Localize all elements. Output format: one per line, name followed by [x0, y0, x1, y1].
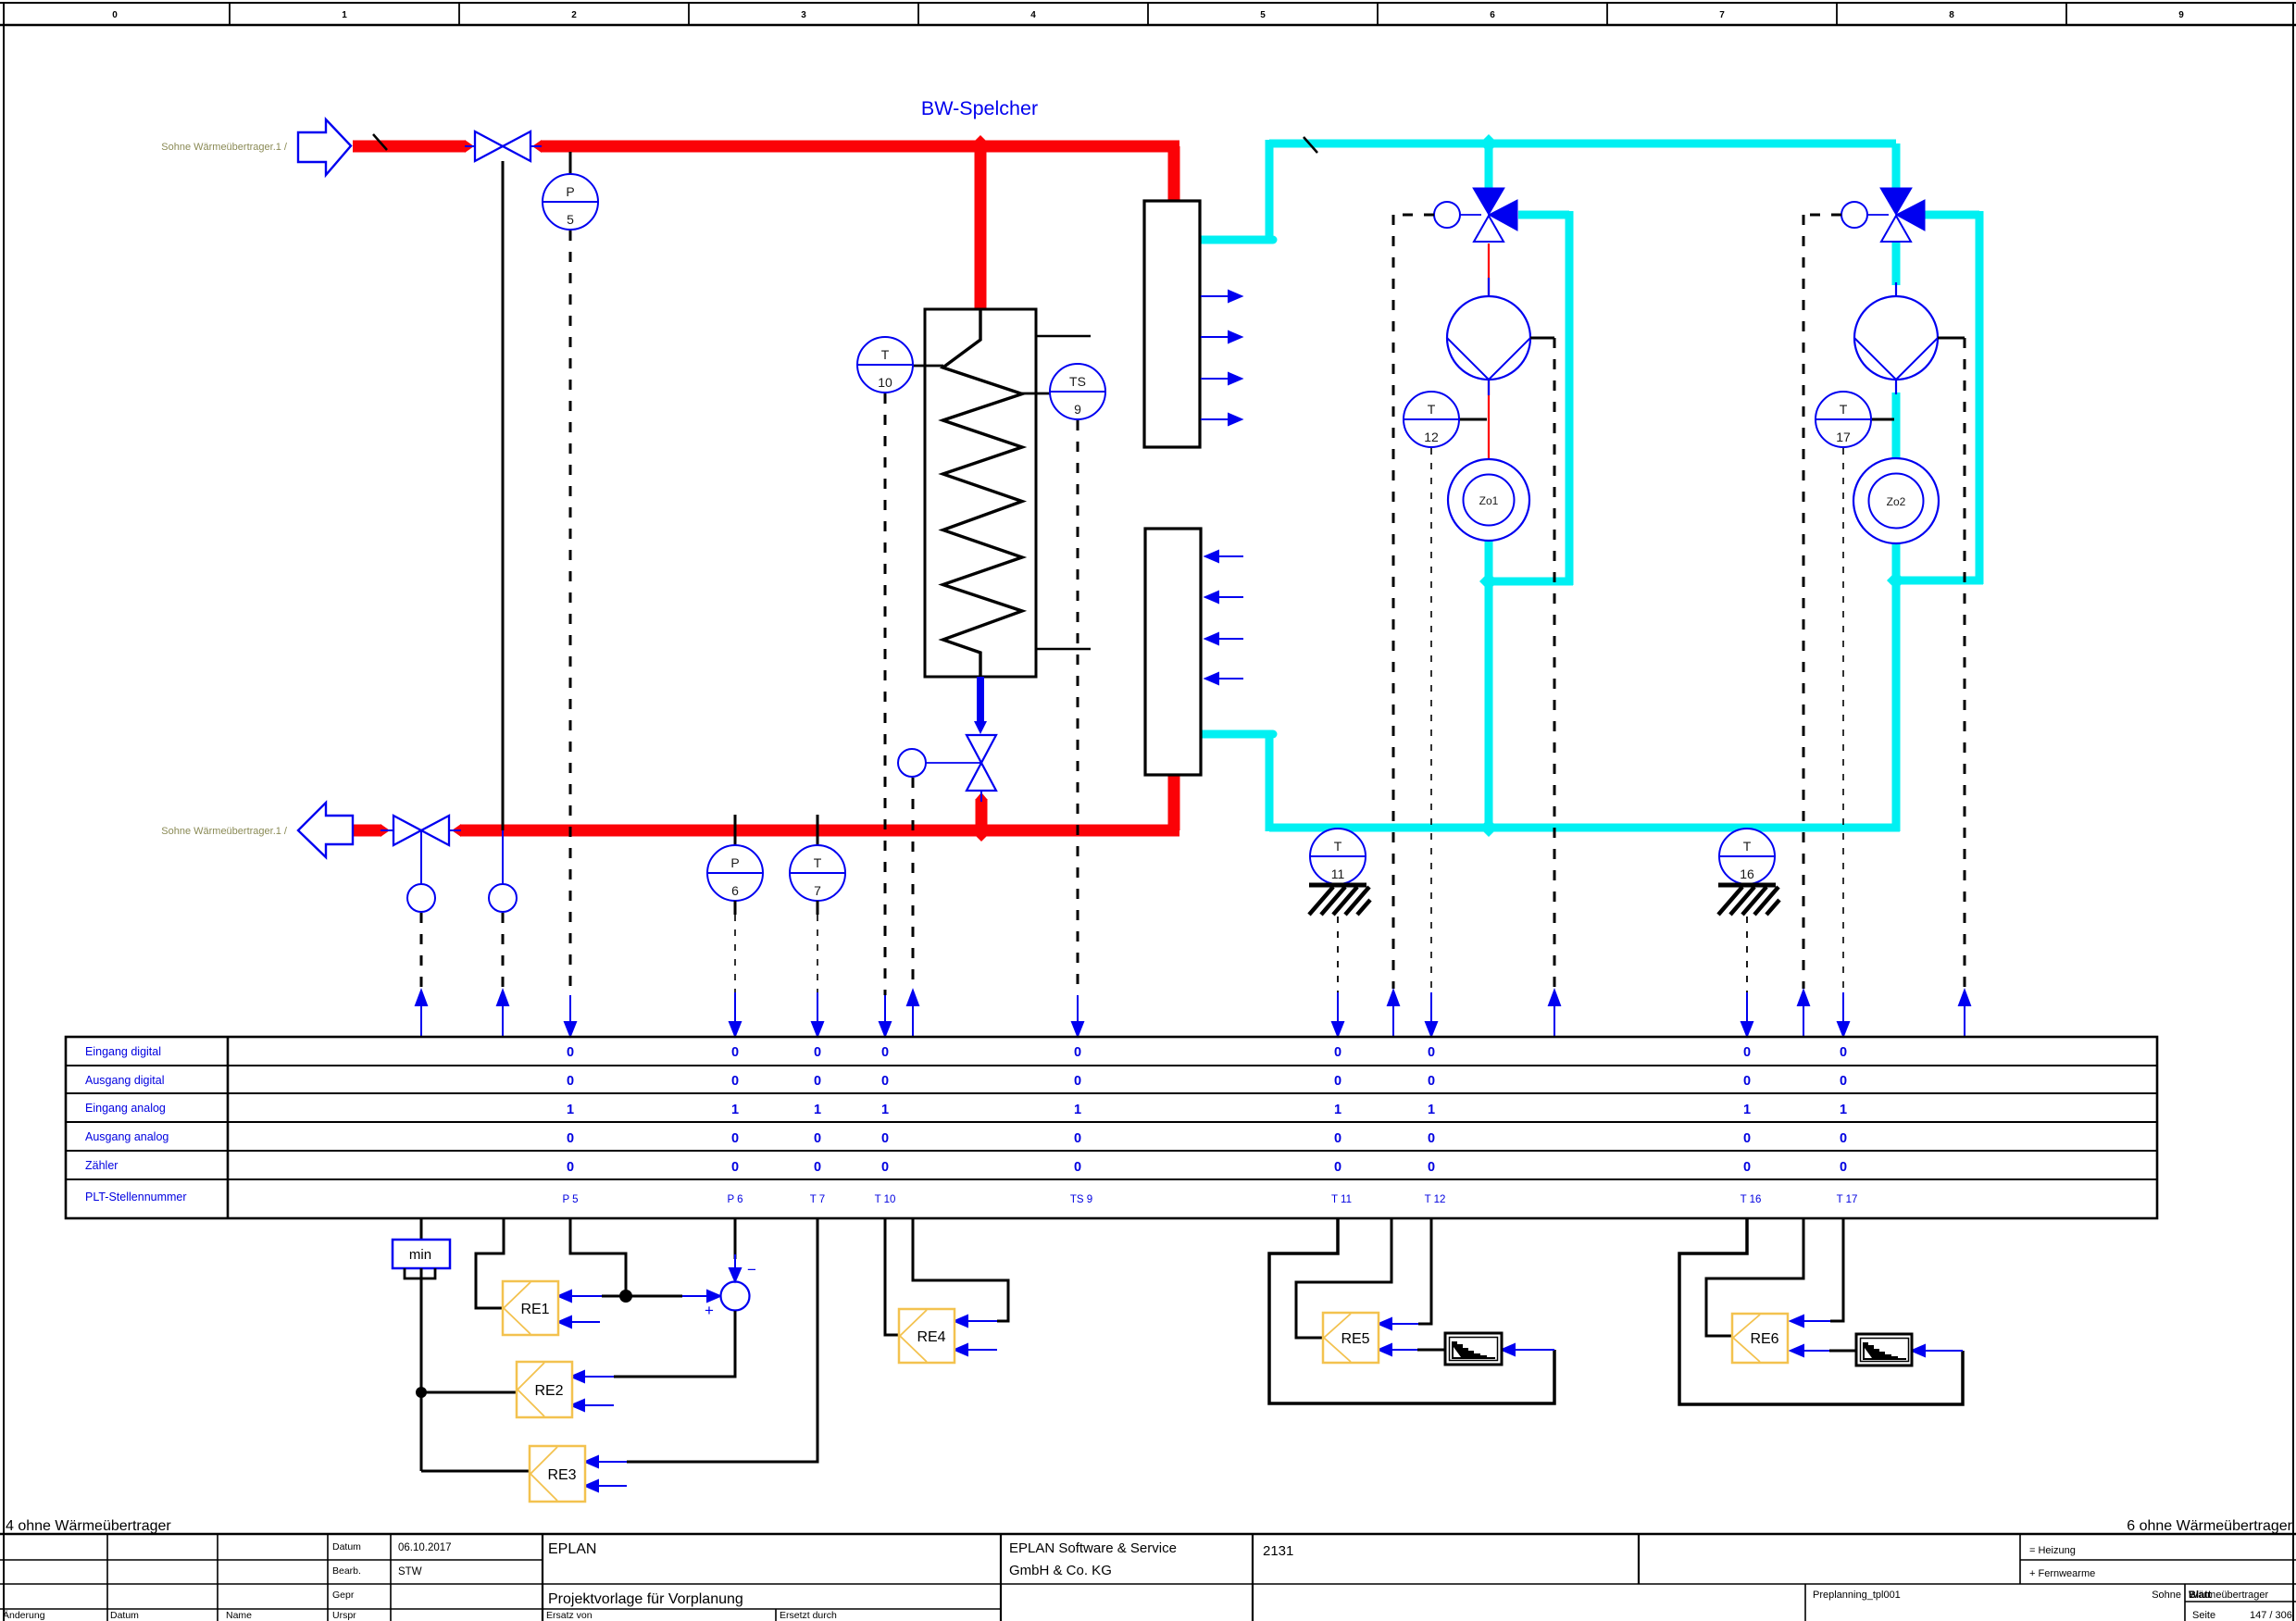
signal line drain valve actuator (dashed) — [912, 778, 915, 989]
svg-text:Ausgang analog: Ausgang analog — [85, 1130, 168, 1143]
cyan junction loop1 bottom header — [1479, 818, 1498, 837]
IO table values row Ausgang digital — [567, 1074, 1847, 1089]
svg-text:0: 0 — [731, 1131, 739, 1146]
svg-text:0: 0 — [1743, 1074, 1751, 1089]
summing point circle — [721, 1282, 750, 1311]
instrument TS9 stub — [1018, 393, 1050, 395]
table arrow up at 455 — [416, 991, 427, 1037]
page frame top border — [0, 2, 2296, 4]
svg-text:0: 0 — [567, 1131, 574, 1146]
svg-text:Preplanning_tpl001: Preplanning_tpl001 — [1813, 1590, 1901, 1601]
svg-text:T: T — [1743, 839, 1752, 854]
controller block RE1 — [503, 1281, 558, 1335]
signal line T17 (thin dashed) — [1842, 448, 1844, 992]
signal line T16 (thin dashed) — [1746, 916, 1748, 992]
table arrow down at 883 — [812, 992, 823, 1036]
svg-text:0: 0 — [112, 10, 118, 20]
svg-text:EPLAN Software & Service: EPLAN Software & Service — [1009, 1540, 1177, 1556]
svg-text:Zähler: Zähler — [85, 1159, 118, 1172]
svg-text:GmbH & Co. KG: GmbH & Co. KG — [1009, 1563, 1112, 1578]
svg-text:0: 0 — [731, 1045, 739, 1060]
logic wire valve V bottom column down — [420, 1268, 423, 1471]
svg-text:= Heizung: = Heizung — [2029, 1545, 2076, 1556]
svg-text:0: 0 — [1428, 1045, 1435, 1060]
logic wire MV2 column to RE6 left — [1706, 1218, 1803, 1336]
pump P1 stub — [1530, 337, 1554, 340]
instrument T11 — [1310, 829, 1366, 884]
IO table values row Zaehler — [567, 1160, 1847, 1175]
cyan junction loop1 — [1479, 572, 1498, 591]
svg-text:5: 5 — [1260, 10, 1266, 20]
svg-text:T 7: T 7 — [810, 1194, 825, 1205]
instrument TS9 — [1050, 364, 1105, 419]
table arrow down at 1164 — [1072, 995, 1083, 1036]
svg-text:0: 0 — [1743, 1160, 1751, 1175]
svg-text:1: 1 — [881, 1103, 889, 1117]
svg-text:T 12: T 12 — [1425, 1194, 1446, 1205]
logic wire P5 column to junction — [570, 1218, 626, 1296]
table arrow down at 1546 — [1426, 992, 1437, 1036]
interruption arrow bottom (outgoing) — [298, 803, 353, 857]
valve V top (on supply) — [475, 131, 530, 161]
signal line valve V top actuator (dashed) — [502, 913, 505, 989]
svg-text:Eingang digital: Eingang digital — [85, 1045, 161, 1058]
ground symbol below T16 — [1718, 885, 1779, 915]
instrument P5 — [543, 152, 598, 230]
svg-text:0: 0 — [731, 1074, 739, 1089]
logic wire to RE2 left — [421, 1391, 517, 1394]
signal line T7 (thin dashed) — [817, 915, 818, 992]
IO table row labels — [85, 1045, 187, 1203]
meter Zo1 — [1448, 459, 1529, 541]
svg-text:EPLAN: EPLAN — [548, 1541, 596, 1557]
logic wire T7 column to RE3 input — [627, 1218, 817, 1462]
svg-text:T: T — [814, 855, 822, 870]
svg-text:5: 5 — [567, 212, 574, 227]
ruler column ticks — [230, 3, 2066, 25]
svg-text:0: 0 — [1428, 1074, 1435, 1089]
controller block RE2 — [517, 1362, 572, 1417]
page frame left border — [3, 3, 5, 1621]
signal line T10 (dashed) — [884, 393, 887, 995]
svg-text:0: 0 — [881, 1074, 889, 1089]
svg-text:1: 1 — [1334, 1103, 1341, 1117]
svg-text:Datum: Datum — [110, 1610, 139, 1621]
svg-text:Ersatz von: Ersatz von — [546, 1610, 593, 1621]
ramp limiter block 1 — [1445, 1333, 1502, 1365]
svg-text:0: 0 — [881, 1045, 889, 1060]
svg-text:0: 0 — [731, 1160, 739, 1175]
svg-text:9: 9 — [2178, 10, 2184, 20]
svg-text:0: 0 — [881, 1160, 889, 1175]
signal line TS9 (dashed) — [1077, 420, 1079, 995]
title block values — [398, 1542, 452, 1577]
valve V bottom stem — [420, 830, 422, 884]
svg-text:0: 0 — [1743, 1045, 1751, 1060]
pipe break tick on cyan — [1304, 137, 1317, 153]
svg-text:0: 0 — [1840, 1160, 1847, 1175]
svg-text:06.10.2017: 06.10.2017 — [398, 1542, 452, 1553]
svg-text:Sohne: Sohne — [2152, 1590, 2181, 1601]
table arrow down at 956 — [880, 995, 891, 1036]
logic wire P6 column into summing point — [734, 1218, 737, 1259]
pump P2 — [1854, 296, 1938, 380]
heat exchanger drain line blue — [977, 677, 984, 721]
ruler column numbers — [112, 10, 2184, 20]
logic wire T12 column to RE5 input — [1418, 1218, 1431, 1324]
svg-text:TS 9: TS 9 — [1070, 1194, 1092, 1205]
instrument T17 stub — [1871, 418, 1894, 421]
svg-text:0: 0 — [814, 1131, 821, 1146]
logic wire drain valve column to RE4 input — [913, 1218, 1008, 1321]
controller block RE3 — [530, 1446, 585, 1502]
logic junction dot — [416, 1387, 427, 1398]
three-way valve MV1 — [1434, 188, 1517, 242]
heat exchanger W1 body — [925, 309, 1036, 677]
svg-text:Wärmeübertrager: Wärmeübertrager — [2189, 1590, 2269, 1601]
svg-text:RE1: RE1 — [520, 1302, 549, 1317]
svg-text:1: 1 — [1840, 1103, 1847, 1117]
pipe break tick on red — [373, 134, 387, 150]
svg-text:BW-Spelcher: BW-Spelcher — [921, 97, 1038, 119]
instrument T10 stub — [913, 365, 943, 368]
svg-text:6: 6 — [1490, 10, 1495, 20]
svg-text:Ersetzt durch: Ersetzt durch — [780, 1610, 837, 1621]
min box connector tab — [405, 1268, 435, 1278]
signal line MV1 actuator (dashed) — [1393, 215, 1434, 989]
svg-text:0: 0 — [1334, 1074, 1341, 1089]
table arrow down at 616 — [565, 995, 576, 1036]
logic wire to RE3 left — [421, 1470, 530, 1473]
svg-text:0: 0 — [1428, 1131, 1435, 1146]
wire cyan bottom header — [1198, 734, 1900, 831]
svg-text:1: 1 — [342, 10, 347, 20]
svg-text:8: 8 — [1949, 10, 1954, 20]
min function box — [393, 1240, 450, 1268]
table arrow down at 794 — [730, 992, 741, 1036]
IO table frame — [66, 1037, 2157, 1218]
svg-text:P: P — [730, 855, 739, 870]
svg-text:T: T — [1428, 402, 1436, 417]
svg-text:Sohne Wärmeübertrager.1 /: Sohne Wärmeübertrager.1 / — [161, 826, 288, 837]
svg-text:2131: 2131 — [1263, 1543, 1293, 1559]
instrument T17 — [1816, 392, 1871, 447]
svg-text:P 5: P 5 — [562, 1194, 578, 1205]
svg-text:147 / 306: 147 / 306 — [2250, 1610, 2292, 1621]
svg-text:3: 3 — [801, 10, 806, 20]
drain valve actuator circle — [898, 749, 926, 777]
heat exchanger bottom right stub — [1036, 648, 1091, 651]
svg-text:T: T — [881, 347, 890, 362]
signal line valve V bottom actuator (dashed) — [420, 913, 423, 989]
RE4 input2 stub — [955, 1344, 997, 1355]
svg-text:2: 2 — [571, 10, 577, 20]
wire loop1 red pump line — [1488, 243, 1490, 459]
svg-text:9: 9 — [1074, 402, 1081, 417]
svg-text:7: 7 — [1719, 10, 1725, 20]
logic wire T16 column loop to ramp2 — [1679, 1218, 1963, 1404]
svg-text:0: 0 — [1074, 1131, 1081, 1146]
instrument T16 — [1719, 829, 1775, 884]
svg-text:RE3: RE3 — [547, 1467, 576, 1483]
instrument P6 — [707, 815, 763, 915]
red pipe pointed caps top — [465, 135, 1179, 211]
interruption arrow top (incoming) — [298, 119, 351, 175]
svg-text:RE4: RE4 — [917, 1329, 945, 1345]
pump P2 stub — [1938, 337, 1965, 340]
logic junction dot P5 — [619, 1290, 632, 1303]
instrument T7 — [790, 815, 845, 915]
svg-text:Urspr: Urspr — [332, 1610, 356, 1621]
wire cyan loop2 — [1896, 211, 1983, 831]
page frame right border — [2292, 3, 2294, 1621]
svg-text:T 11: T 11 — [1331, 1194, 1352, 1205]
table arrow down at 1991 — [1838, 992, 1849, 1036]
svg-text:0: 0 — [1334, 1160, 1341, 1175]
heat exchanger coil — [943, 309, 1023, 677]
svg-text:T 16: T 16 — [1741, 1194, 1762, 1205]
svg-text:0: 0 — [1840, 1045, 1847, 1060]
logic wire valve V top column to RE1 left — [476, 1218, 504, 1308]
svg-text:STW: STW — [398, 1566, 422, 1577]
svg-text:Eingang analog: Eingang analog — [85, 1102, 166, 1115]
signal line P6 (thin dashed) — [734, 915, 736, 992]
svg-text:0: 0 — [814, 1045, 821, 1060]
valve V bottom actuator circle — [407, 884, 435, 912]
signal line T11 (thin dashed) — [1337, 916, 1339, 992]
ramp limiter block 2 — [1856, 1334, 1912, 1365]
svg-text:+ Fernwearme: + Fernwearme — [2029, 1568, 2095, 1579]
storage connection block bottom (rect2) — [1145, 529, 1201, 775]
signal line T12 (thin dashed) — [1430, 448, 1432, 992]
valve V top stem down to return pipe — [502, 161, 505, 830]
svg-text:16: 16 — [1740, 867, 1754, 881]
svg-text:RE2: RE2 — [534, 1383, 563, 1399]
svg-text:4: 4 — [1030, 10, 1036, 20]
signal line pump P1 (dashed) — [1554, 338, 1556, 989]
svg-text:0: 0 — [567, 1045, 574, 1060]
svg-text:1: 1 — [1074, 1103, 1081, 1117]
storage connection block top (rect1) — [1144, 201, 1200, 447]
svg-text:Ausgang digital: Ausgang digital — [85, 1074, 164, 1087]
svg-text:Projektvorlage für Vorplanung: Projektvorlage für Vorplanung — [548, 1591, 743, 1607]
svg-text:0: 0 — [1840, 1131, 1847, 1146]
svg-text:Datum: Datum — [332, 1541, 361, 1552]
svg-text:1: 1 — [814, 1103, 821, 1117]
svg-text:min: min — [409, 1247, 431, 1263]
svg-text:+: + — [705, 1302, 714, 1319]
pump P2 connection stubs — [1895, 282, 1897, 296]
svg-text:0: 0 — [814, 1074, 821, 1089]
svg-text:17: 17 — [1836, 430, 1851, 444]
svg-text:1: 1 — [1743, 1103, 1751, 1117]
svg-text:Zo2: Zo2 — [1887, 495, 1906, 508]
svg-text:0: 0 — [1334, 1045, 1341, 1060]
svg-text:T 10: T 10 — [875, 1194, 896, 1205]
ground symbol below T11 — [1309, 885, 1370, 915]
pump P1 — [1447, 296, 1530, 380]
controller block RE4 — [899, 1309, 955, 1363]
svg-text:7: 7 — [814, 883, 821, 898]
svg-text:1: 1 — [731, 1103, 739, 1117]
svg-text:−: − — [747, 1261, 756, 1278]
svg-text:Sohne Wärmeübertrager.1 /: Sohne Wärmeübertrager.1 / — [161, 142, 288, 153]
valve V top actuator circle — [489, 884, 517, 912]
svg-text:0: 0 — [1074, 1160, 1081, 1175]
signal line P5 (dashed) — [569, 231, 572, 995]
svg-text:P 6: P 6 — [727, 1194, 742, 1205]
three-way valve MV2 — [1841, 188, 1925, 242]
IO table values row Ausgang analog — [567, 1131, 1847, 1146]
svg-text:6: 6 — [731, 883, 739, 898]
svg-text:10: 10 — [878, 375, 892, 390]
rect2 incoming arrows — [1205, 551, 1243, 684]
RE1 input2 stub — [558, 1316, 600, 1328]
title block structure texts — [1813, 1545, 2292, 1621]
svg-text:6 ohne Wärmeübertrager: 6 ohne Wärmeübertrager — [2127, 1518, 2292, 1534]
logic wire ramp1 to RE5 input — [1417, 1349, 1446, 1352]
svg-text:Bearb.: Bearb. — [332, 1565, 361, 1577]
wire cyan supply main top — [1198, 140, 1896, 240]
signal line pump P2 (dashed) — [1964, 338, 1966, 989]
svg-text:PLT-Stellennummer: PLT-Stellennummer — [85, 1191, 187, 1203]
svg-text:T: T — [1840, 402, 1848, 417]
svg-text:1: 1 — [1428, 1103, 1435, 1117]
svg-text:Zo1: Zo1 — [1479, 494, 1499, 507]
controller block RE5 — [1323, 1313, 1379, 1363]
IO table values row Eingang digital — [567, 1045, 1847, 1060]
instrument T10 — [857, 337, 913, 393]
title block small labels — [3, 1541, 837, 1621]
instrument T12 — [1404, 392, 1459, 447]
svg-text:0: 0 — [567, 1074, 574, 1089]
red pipe caps bottom / junction — [381, 766, 1179, 842]
table arrow up at 986 — [907, 991, 918, 1037]
svg-text:T: T — [1334, 839, 1342, 854]
logic wire junction to summing point — [626, 1295, 682, 1298]
svg-text:Gepr: Gepr — [332, 1590, 355, 1601]
svg-text:4 ohne Wärmeübertrager: 4 ohne Wärmeübertrager — [6, 1518, 171, 1534]
wire cyan loop1 bypass — [1489, 211, 1573, 831]
logic wire from valve V bottom column into min box — [420, 1218, 423, 1240]
IO table values row Eingang analog — [567, 1103, 1847, 1117]
wire red supply pipe top (segment after arrow) — [353, 146, 1179, 316]
logic wire summing point output to RE2 input — [614, 1311, 735, 1377]
svg-text:0: 0 — [1074, 1045, 1081, 1060]
controller block RE6 — [1732, 1314, 1788, 1363]
drain valve (vertical) — [967, 735, 996, 791]
svg-text:Name: Name — [226, 1610, 252, 1621]
svg-text:0: 0 — [567, 1160, 574, 1175]
svg-text:Änderung: Änderung — [3, 1610, 45, 1621]
svg-text:0: 0 — [814, 1160, 821, 1175]
logic wire MV1 column to RE5 left — [1296, 1218, 1391, 1338]
svg-text:T 17: T 17 — [1837, 1194, 1858, 1205]
svg-text:P: P — [566, 184, 574, 199]
logic wire junction to RE1 input — [602, 1295, 626, 1298]
svg-text:0: 0 — [881, 1131, 889, 1146]
svg-text:1: 1 — [567, 1103, 574, 1117]
logic wire T17 column to RE6 input — [1830, 1218, 1843, 1321]
svg-text:RE5: RE5 — [1341, 1331, 1369, 1347]
svg-text:TS: TS — [1069, 374, 1086, 389]
svg-text:Seite: Seite — [2192, 1610, 2215, 1621]
svg-text:0: 0 — [1840, 1074, 1847, 1089]
svg-text:0: 0 — [1428, 1160, 1435, 1175]
logic wire T10 column to RE4 left — [885, 1218, 899, 1335]
svg-text:12: 12 — [1424, 430, 1439, 444]
wire red return pipe bottom — [354, 771, 1179, 830]
valve V bottom (on return) — [393, 816, 449, 845]
table arrow down at 1445 — [1332, 992, 1343, 1036]
table arrow down at 1887 — [1741, 992, 1753, 1036]
meter Zo2 — [1853, 458, 1939, 543]
svg-text:11: 11 — [1331, 867, 1345, 881]
cyan junction loop2 — [1887, 571, 1905, 590]
cyan junction loop1 top tap — [1479, 134, 1498, 153]
signal line MV2 actuator (dashed) — [1803, 215, 1841, 989]
RE3 input2 stub — [585, 1480, 627, 1491]
ruler bottom line — [0, 24, 2296, 27]
svg-text:0: 0 — [1074, 1074, 1081, 1089]
IO table values row PLT-Stellennummer — [562, 1194, 1857, 1205]
table arrow up at 543 — [497, 991, 508, 1037]
logic wire T11 column loop to ramp1 — [1269, 1218, 1554, 1403]
svg-text:RE6: RE6 — [1750, 1331, 1778, 1347]
instrument T12 stub — [1459, 418, 1487, 421]
logic wire ramp2 to RE6 input — [1829, 1350, 1856, 1353]
title block lines — [0, 1534, 2296, 1621]
svg-text:0: 0 — [1743, 1131, 1751, 1146]
svg-text:0: 0 — [1334, 1131, 1341, 1146]
rect1 outgoing arrows — [1201, 291, 1242, 425]
RE2 input2 stub — [571, 1400, 614, 1411]
heat exchanger top right stub — [1036, 335, 1091, 338]
